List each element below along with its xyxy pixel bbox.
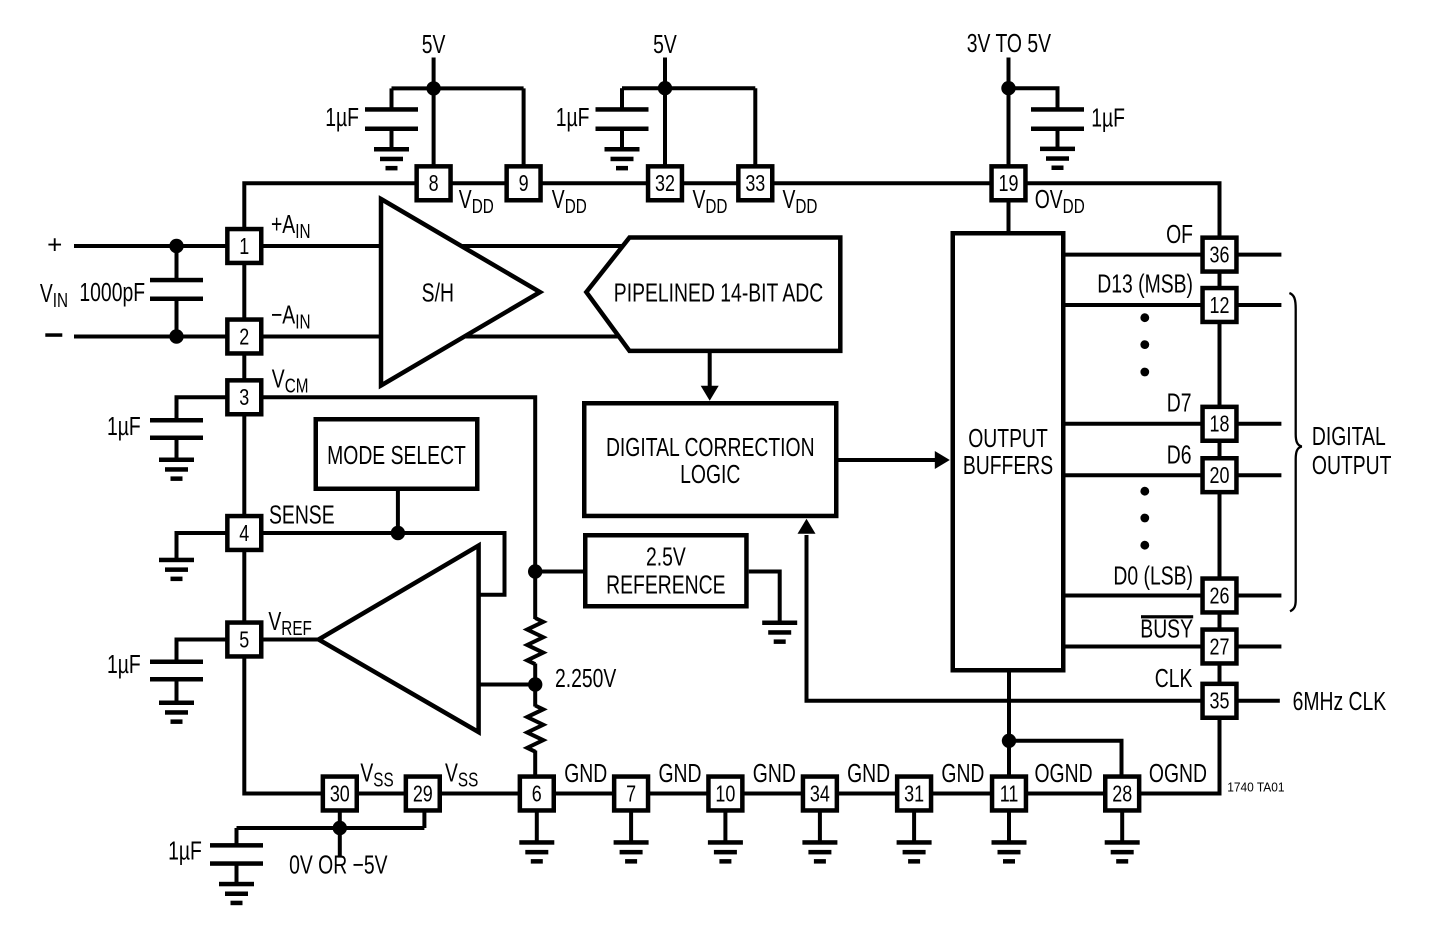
wire VSS node to pin 29 — [422, 810, 426, 828]
op-amp S/H sample-and-hold — [381, 199, 540, 386]
pin 31 GND — [897, 777, 931, 811]
svg-text:+: + — [47, 230, 62, 260]
capacitor C5 1uF on VREF — [150, 660, 203, 682]
wire VCM pin3 to reference divider column — [262, 397, 535, 571]
resistor R2 (lower divider) — [527, 706, 543, 752]
pin 5 VREF — [227, 623, 261, 657]
wire C3 to ground — [1056, 129, 1060, 149]
wire 2.5V REFERENCE output to ground — [749, 572, 780, 622]
block PIPELINED 14-BIT ADC — [586, 238, 840, 351]
pin 9 VDD — [507, 166, 541, 200]
svg-text:33: 33 — [745, 171, 765, 197]
svg-text:GND: GND — [941, 758, 984, 787]
ellipsis dots D13..D7 — [1140, 313, 1149, 376]
junction VSS node — [333, 821, 347, 835]
wire pin 30 to VSS node — [338, 810, 342, 828]
svg-text:2.5V: 2.5V — [646, 542, 686, 571]
svg-text:6: 6 — [532, 781, 542, 807]
svg-text:DIGITAL CORRECTION: DIGITAL CORRECTION — [606, 432, 815, 461]
svg-text:GND: GND — [847, 758, 890, 787]
block MODE SELECT — [316, 419, 478, 489]
svg-text:D7: D7 — [1167, 388, 1192, 417]
pin 34 GND — [803, 777, 837, 811]
wire pin 18 external stub — [1239, 422, 1282, 426]
svg-text:1µF: 1µF — [556, 102, 590, 131]
wire divider upper segment — [533, 572, 537, 620]
svg-text:20: 20 — [1210, 463, 1230, 489]
svg-text:32: 32 — [655, 171, 675, 197]
svg-text:5: 5 — [239, 627, 249, 653]
svg-text:8: 8 — [429, 171, 439, 197]
svg-text:REFERENCE: REFERENCE — [606, 570, 725, 599]
wire pin 27 external stub — [1239, 645, 1282, 649]
svg-text:10: 10 — [715, 781, 735, 807]
ground below pin 11 — [992, 840, 1027, 863]
svg-text:5V: 5V — [422, 29, 446, 58]
wire pin 36 external stub — [1239, 253, 1282, 257]
wire R2 to GND pin 6 — [533, 751, 537, 781]
capacitor 1000pF input — [150, 278, 203, 301]
wire 5V supply stub into pin 8 — [432, 58, 436, 169]
pin 20 D6 — [1203, 458, 1237, 492]
wire VSS node to cap C6 — [235, 828, 239, 844]
junction SENSE / MODE SELECT — [391, 526, 405, 540]
wire pin 3 to bypass cap C4 — [177, 397, 263, 419]
wire DCL to OUTPUT BUFFERS — [839, 458, 937, 462]
pin 19 OVDD — [992, 166, 1026, 200]
svg-text:2.250V: 2.250V — [555, 663, 617, 692]
wire pin 11 to ground — [1007, 810, 1011, 841]
label - input — [45, 333, 62, 337]
svg-text:36: 36 — [1210, 242, 1230, 268]
svg-text:OUTPUT: OUTPUT — [1312, 450, 1392, 479]
wire input cap bottom lead — [175, 300, 179, 337]
wire pin 20 external stub — [1239, 473, 1282, 477]
wire ADC to DIGITAL CORRECTION LOGIC — [708, 351, 712, 387]
pin 35 CLK — [1203, 684, 1237, 718]
wire branch down to pin 9 — [522, 88, 526, 168]
svg-text:2: 2 — [239, 324, 249, 350]
svg-text:OUTPUT: OUTPUT — [968, 423, 1048, 452]
pin 26 D0 — [1203, 579, 1237, 613]
wire +AIN pin1 to S/H and ADC — [262, 244, 630, 248]
svg-text:0V OR −5V: 0V OR −5V — [289, 850, 388, 879]
op-amp U1 reference buffer — [319, 546, 479, 733]
svg-text:OF: OF — [1166, 219, 1193, 248]
pin 3 VCM — [227, 380, 261, 414]
wire pin 5 to bypass cap C5 — [177, 640, 263, 661]
wire branch down to pin 33 — [753, 88, 757, 168]
wire tap to R2 — [533, 685, 537, 707]
svg-text:OGND: OGND — [1035, 758, 1093, 787]
junction supply-3 — [1001, 81, 1015, 95]
wire buffers to pin 36 OF — [1066, 253, 1201, 257]
svg-text:29: 29 — [413, 781, 433, 807]
pin 10 GND — [708, 777, 742, 811]
wire pin 26 external stub — [1239, 594, 1282, 598]
wire OGND net to pin 28 — [1009, 741, 1122, 775]
svg-text:31: 31 — [904, 781, 924, 807]
wire pin 31 to ground — [912, 810, 916, 841]
svg-text:7: 7 — [626, 781, 636, 807]
wire MODE SELECT to SENSE net — [396, 491, 400, 533]
svg-text:LOGIC: LOGIC — [680, 459, 740, 488]
svg-text:1µF: 1µF — [107, 649, 141, 678]
svg-text:12: 12 — [1210, 293, 1230, 319]
svg-text:4: 4 — [239, 521, 249, 547]
wire VREF pin5 to buffer amp output — [262, 638, 322, 642]
pin 36 OF — [1203, 238, 1237, 272]
capacitor C1 1uF bypass — [365, 107, 418, 131]
pin 33 VDD — [738, 166, 772, 200]
svg-text:1µF: 1µF — [168, 836, 202, 865]
ground below pin 7 — [614, 840, 649, 863]
svg-text:6MHz CLK: 6MHz CLK — [1293, 686, 1387, 715]
arrowhead into OUTPUT BUFFERS — [935, 451, 950, 469]
svg-text:BUSY: BUSY — [1140, 613, 1193, 642]
wire 3V-5V supply stub into pin 19 — [1007, 58, 1011, 169]
pin 18 D7 — [1203, 407, 1237, 441]
junction supply-1 — [426, 81, 440, 95]
pin 8 VDD — [417, 166, 451, 200]
arrowhead CLK into DCL bottom — [798, 519, 816, 534]
wire pin 7 to ground — [629, 810, 633, 841]
junction VIN+ / 1000pF — [169, 239, 183, 253]
wire pin 4 to ground — [177, 533, 263, 559]
wire OUTPUT BUFFERS to OGND pin 11 — [1007, 672, 1011, 775]
wire branch down to bypass cap C2 — [620, 88, 624, 108]
capacitor C4 1uF on VCM — [150, 418, 203, 440]
svg-text:18: 18 — [1210, 412, 1230, 438]
arrowhead into DIGITAL CORRECTION LOGIC — [701, 386, 719, 401]
wire buffers to pin 27 BUSY — [1066, 645, 1201, 649]
junction OGND net — [1002, 734, 1016, 748]
wire buffers to pin 18 D7 — [1066, 422, 1201, 426]
resistor R1 (upper divider) — [527, 618, 543, 664]
pin 29 VSS — [406, 777, 440, 811]
svg-text:GND: GND — [659, 758, 702, 787]
svg-text:9: 9 — [519, 171, 529, 197]
ground below pin 10 — [708, 840, 743, 863]
svg-text:DIGITAL: DIGITAL — [1312, 421, 1386, 450]
ground below C1 — [374, 147, 409, 170]
svg-text:D6: D6 — [1167, 440, 1192, 469]
pin 1 +AIN — [227, 229, 261, 263]
svg-text:1: 1 — [239, 234, 249, 260]
wire input cap top lead — [175, 246, 179, 279]
junction VIN- / 1000pF — [169, 329, 183, 343]
overline for BUSY label — [1141, 615, 1193, 618]
wire main bus rectangle (VDD bus top, left pin column, GND bus bottom, output pin column right) — [244, 183, 1219, 793]
pin 7 GND — [614, 777, 648, 811]
pin 27 BUSY — [1203, 630, 1237, 664]
ellipsis dots D6..D0 — [1140, 487, 1149, 550]
pin 6 GND — [520, 777, 554, 811]
ground below pin 6 — [519, 840, 554, 863]
svg-text:30: 30 — [330, 781, 350, 807]
wire buffers to pin 20 D6 — [1066, 473, 1201, 477]
pin 32 VDD — [648, 166, 682, 200]
wire R1 to 2.250V tap — [533, 664, 537, 685]
wire -AIN pin2 to S/H and ADC — [262, 335, 630, 339]
svg-text:19: 19 — [999, 171, 1019, 197]
wire CLK feedback to DCL — [807, 535, 1201, 701]
svg-text:34: 34 — [810, 781, 830, 807]
svg-text:1µF: 1µF — [1091, 103, 1125, 132]
svg-text:35: 35 — [1210, 689, 1230, 715]
wire VSS node horizontal — [237, 826, 425, 830]
junction 2.250V tap — [528, 677, 542, 691]
block 2.5V REFERENCE — [585, 535, 746, 606]
pin 12 D13 — [1203, 288, 1237, 322]
wire C4 to ground — [175, 438, 179, 459]
wire pin 34 to ground — [818, 810, 822, 841]
svg-text:1µF: 1µF — [107, 411, 141, 440]
capacitor C6 1uF on VSS — [210, 843, 263, 866]
junction divider / reference input — [528, 564, 542, 578]
pin 11 GND — [992, 777, 1026, 811]
block DIGITAL CORRECTION LOGIC — [584, 403, 836, 516]
wire SENSE pin4 to op-amp feedback — [262, 533, 505, 595]
ground below C2 — [605, 147, 640, 170]
ground below C3 — [1040, 147, 1075, 170]
svg-text:GND: GND — [564, 758, 607, 787]
svg-text:11: 11 — [1000, 781, 1019, 807]
svg-text:1740 TA01: 1740 TA01 — [1227, 780, 1284, 795]
block OUTPUT BUFFERS — [953, 233, 1064, 670]
svg-text:MODE SELECT: MODE SELECT — [327, 440, 466, 469]
wire VIN+ input — [74, 244, 262, 248]
wire C1 to ground — [390, 129, 394, 149]
svg-text:D0 (LSB): D0 (LSB) — [1113, 560, 1193, 589]
pin 28 OGND — [1105, 777, 1139, 811]
wire pin 12 external stub — [1239, 303, 1282, 307]
pin 2 -AIN — [227, 320, 261, 354]
wire buffers to pin 26 D0 — [1066, 594, 1201, 598]
svg-text:GND: GND — [753, 758, 796, 787]
wire supply-3 horizontal branch to cap C3 — [1009, 88, 1058, 108]
wire pin 19 to OUTPUT BUFFERS — [1007, 199, 1011, 233]
svg-text:CLK: CLK — [1155, 663, 1193, 692]
wire C6 to ground — [235, 864, 239, 883]
wire buffers to pin 12 D13 — [1066, 303, 1201, 307]
svg-text:OGND: OGND — [1149, 758, 1207, 787]
svg-text:3V TO 5V: 3V TO 5V — [967, 28, 1052, 57]
wire supply-2 horizontal branch — [622, 86, 755, 90]
ground below C5 — [159, 701, 194, 724]
svg-text:D13 (MSB): D13 (MSB) — [1097, 269, 1193, 298]
wire branch down to bypass cap C1 — [390, 88, 394, 108]
brace digital output group — [1289, 293, 1301, 611]
svg-text:S/H: S/H — [422, 277, 454, 306]
wire pin 35 external 6MHz CLK stub — [1239, 699, 1280, 703]
ground below pin 4 — [159, 558, 194, 581]
svg-text:3: 3 — [239, 385, 249, 411]
wire VSS supply terminal stub — [338, 828, 342, 858]
wire buffer amp lower input to 2.250V tap — [479, 683, 536, 687]
junction supply-2 — [658, 81, 672, 95]
wire C5 to ground — [175, 680, 179, 702]
svg-text:26: 26 — [1210, 583, 1230, 609]
svg-text:5V: 5V — [653, 29, 677, 58]
wire supply-1 horizontal branch — [392, 86, 524, 90]
wire C2 to ground — [620, 129, 624, 149]
svg-text:1µF: 1µF — [325, 102, 359, 131]
svg-text:PIPELINED 14-BIT ADC: PIPELINED 14-BIT ADC — [614, 277, 823, 306]
ground below C6 — [219, 882, 254, 905]
wire divider node to 2.5V REFERENCE — [535, 570, 585, 574]
capacitor C3 1uF bypass — [1031, 107, 1084, 131]
ground below pin 31 — [897, 840, 932, 863]
svg-text:1000pF: 1000pF — [79, 277, 145, 306]
svg-text:BUFFERS: BUFFERS — [963, 450, 1053, 479]
ground at 2.5V REFERENCE — [762, 621, 797, 644]
wire pin 10 to ground — [723, 810, 727, 841]
svg-text:27: 27 — [1210, 634, 1230, 660]
pin 4 SENSE — [227, 516, 261, 550]
ground below C4 — [159, 458, 194, 481]
svg-text:SENSE: SENSE — [269, 500, 335, 529]
wire pin 6 to ground — [535, 810, 539, 841]
ground below pin 34 — [802, 840, 837, 863]
pin 30 VSS — [323, 777, 357, 811]
wire pin 28 to ground — [1120, 810, 1124, 841]
wire VIN- input — [74, 335, 262, 339]
svg-text:28: 28 — [1112, 781, 1132, 807]
ground below pin 28 — [1105, 840, 1140, 863]
wire 5V supply stub into pin 32 — [663, 58, 667, 169]
capacitor C2 1uF bypass — [596, 107, 649, 131]
